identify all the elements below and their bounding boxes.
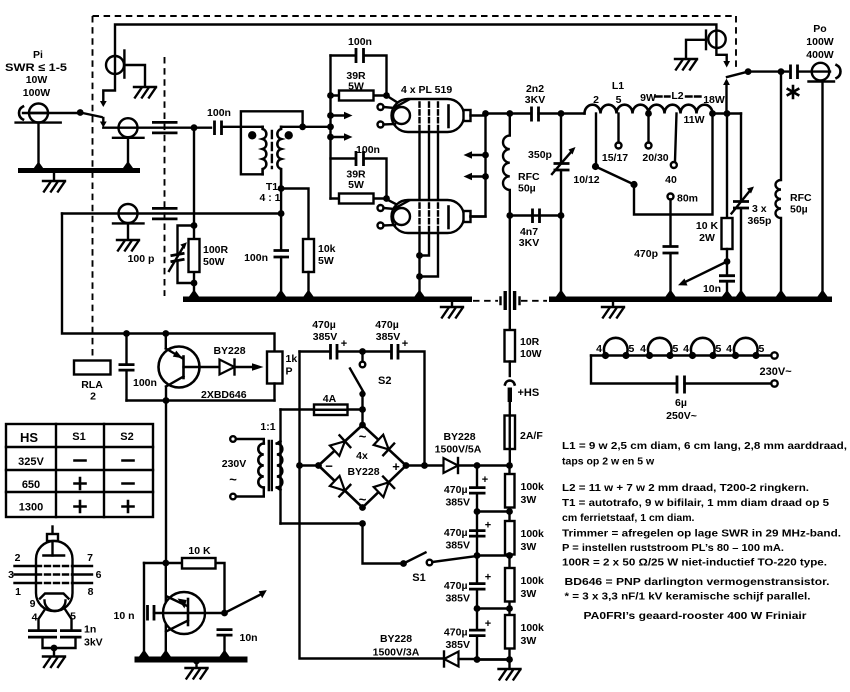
svg-text:5W: 5W [348, 179, 364, 191]
heater chain diagram [591, 354, 771, 356]
svg-text:10/12: 10/12 [573, 174, 599, 186]
transistor bias regulator [163, 592, 205, 634]
relay contact arm K1a input [80, 113, 101, 118]
ground bar right main [549, 297, 832, 303]
relay coil RLA 2 [74, 361, 111, 375]
tube socket pinout diagram [51, 527, 53, 535]
svg-text:470p: 470p [634, 248, 658, 260]
svg-text:BY228: BY228 [347, 466, 379, 478]
svg-text:100R = 2 x 50 Ω/25 W niet-indu: 100R = 2 x 50 Ω/25 W niet-inductief TO-2… [562, 557, 827, 569]
diode bridge bottom-left [329, 475, 350, 496]
svg-text:230V: 230V [222, 458, 247, 470]
svg-text:650: 650 [22, 479, 40, 491]
T1 core [271, 131, 273, 168]
svg-text:L2 = 11 w + 7 w 2 mm draad, T2: L2 = 11 w + 7 w 2 mm draad, T200-2 ringk… [562, 482, 809, 494]
wire output line [748, 70, 788, 72]
svg-text:Trimmer = afregelen op lage SW: Trimmer = afregelen op lage SWR in 29 MH… [562, 528, 841, 540]
svg-text:80m: 80m [677, 193, 698, 205]
wire anode line [486, 112, 531, 114]
connector J1 input coax [19, 107, 23, 120]
heater loop 4 [732, 352, 739, 359]
capacitor 1n 3kV heater pair [39, 610, 72, 630]
svg-text:4 : 1: 4 : 1 [259, 192, 280, 204]
trimmer capacitor 100p [178, 226, 195, 284]
svg-text:10 K: 10 K [188, 545, 211, 557]
svg-text:100n: 100n [356, 144, 380, 156]
svg-text:3W: 3W [521, 635, 537, 647]
switch S2 [361, 352, 363, 362]
wire RX bypass bus [115, 25, 727, 62]
svg-text:385V: 385V [313, 331, 338, 343]
svg-text:470µ: 470µ [444, 580, 468, 592]
wire T1 output [281, 126, 330, 128]
svg-text:11W: 11W [683, 114, 704, 126]
svg-text:BD646 = PNP darlington vermoge: BD646 = PNP darlington vermogenstransist… [565, 576, 830, 588]
svg-text:5W: 5W [318, 255, 334, 267]
svg-text:1500V/5A: 1500V/5A [435, 444, 482, 456]
arrow to other tubes lower [331, 136, 346, 138]
svg-text:1n: 1n [84, 624, 96, 636]
ground [43, 657, 65, 668]
diode bridge top-right [373, 434, 394, 455]
svg-text:RFC: RFC [790, 192, 812, 204]
svg-text:+: + [482, 474, 488, 486]
arrow to other tube anodes upper [482, 152, 489, 159]
svg-text:BY228: BY228 [443, 431, 475, 443]
svg-text:5: 5 [673, 343, 679, 355]
svg-text:100n: 100n [348, 36, 372, 48]
svg-text:2: 2 [15, 552, 21, 564]
capacitor 470u 385V filter 4 [469, 630, 486, 636]
svg-text:100R: 100R [203, 244, 229, 256]
node grid column [329, 56, 331, 199]
svg-text:4: 4 [596, 343, 602, 355]
svg-text:3: 3 [8, 569, 14, 581]
T1 right winding [277, 127, 281, 188]
tap 20/30 [647, 114, 649, 143]
wire branch to 10k [281, 189, 308, 240]
svg-text:15/17: 15/17 [602, 152, 628, 164]
variable capacitor 3x365p load [740, 114, 742, 297]
svg-text:100W: 100W [23, 87, 51, 99]
svg-text:2XBD646: 2XBD646 [201, 389, 247, 401]
svg-text:3KV: 3KV [525, 94, 545, 106]
arrow RF sense to metering [683, 262, 727, 284]
svg-text:6: 6 [96, 569, 102, 581]
connector K4 output relay circle [708, 31, 725, 48]
svg-text:+HS: +HS [518, 387, 540, 399]
wire bias bottom rail [127, 399, 275, 401]
wire main drop to PSU [165, 401, 167, 564]
switch S1 [400, 560, 407, 567]
svg-text:4 x PL 519: 4 x PL 519 [401, 84, 452, 96]
svg-text:5: 5 [759, 343, 765, 355]
svg-text:−: − [325, 459, 333, 474]
tap 15/17 [617, 114, 619, 143]
ground bar left main [183, 297, 472, 303]
svg-text:100k: 100k [521, 622, 545, 634]
svg-text:L2: L2 [671, 90, 683, 102]
svg-text:385V: 385V [445, 593, 470, 605]
connector K3 coax feedthrough [119, 204, 138, 223]
tap 80m with capacitor 470p [668, 194, 674, 200]
wire node column down [193, 128, 195, 297]
svg-text:S1: S1 [72, 431, 85, 443]
svg-text:10n: 10n [703, 283, 721, 295]
svg-text:100n: 100n [244, 252, 268, 264]
dashed inner shield wall [164, 57, 166, 296]
relay upper contact from RX bus [103, 56, 115, 102]
wire output relay contact column [725, 82, 727, 114]
heater loop 1 [602, 352, 609, 359]
svg-text:+: + [402, 338, 408, 350]
svg-text:3W: 3W [521, 588, 537, 600]
connector J2 output coax [812, 63, 830, 81]
svg-text:SWR ≤ 1-5: SWR ≤ 1-5 [5, 62, 67, 74]
svg-text:100k: 100k [521, 575, 545, 587]
svg-text:2W: 2W [699, 232, 715, 244]
wire heater return with capacitor 6u 250V [591, 356, 676, 384]
ground at bleeder bottom [508, 660, 510, 669]
svg-text:325V: 325V [18, 456, 44, 468]
ground bar PSU [135, 657, 248, 663]
svg-text:350p: 350p [528, 149, 552, 161]
choke RFC 50u anode feed [503, 114, 510, 216]
wire anode column [471, 114, 486, 217]
capacitor 470u 385V filter 2 [469, 531, 486, 537]
svg-text:10R: 10R [520, 336, 540, 348]
arrow RF sense from divider [221, 610, 228, 617]
svg-text:~: ~ [359, 429, 367, 444]
svg-text:385V: 385V [445, 497, 470, 509]
svg-text:4A: 4A [323, 393, 337, 405]
svg-text:100k: 100k [521, 528, 545, 540]
svg-text:+: + [341, 338, 347, 350]
svg-text:cm ferrietstaaf, 1 cm diam.: cm ferrietstaaf, 1 cm diam. [562, 512, 695, 524]
svg-text:470µ: 470µ [312, 319, 336, 331]
svg-text:4x: 4x [356, 450, 368, 462]
transformer T1 4:1 [241, 111, 303, 174]
ground [53, 173, 55, 180]
heater loop 3 [689, 352, 696, 359]
connector +HS plug [509, 362, 511, 377]
svg-text:L1: L1 [612, 80, 624, 92]
svg-text:385V: 385V [445, 639, 470, 651]
capacitor output blocking [791, 65, 798, 80]
arrow to other tube anodes lower [482, 173, 489, 180]
svg-text:4: 4 [32, 612, 38, 624]
ground [675, 59, 697, 70]
svg-text:10W: 10W [26, 74, 48, 86]
capacitor 470u 385V filter 1 [476, 466, 478, 556]
tap 40 [675, 114, 677, 162]
wire cathode/heater returns to ground [420, 233, 439, 297]
svg-text:50W: 50W [203, 256, 225, 268]
svg-text:2: 2 [90, 391, 96, 403]
capacitor 10n emitter right [217, 630, 233, 636]
svg-text:HS: HS [20, 430, 38, 445]
svg-text:S2: S2 [120, 431, 133, 443]
svg-text:~: ~ [359, 492, 367, 507]
svg-text:470µ: 470µ [375, 319, 399, 331]
svg-text:100 p: 100 p [128, 253, 155, 265]
svg-text:100n: 100n [207, 107, 231, 119]
svg-text:1500V/3A: 1500V/3A [373, 647, 420, 659]
svg-text:+: + [392, 459, 400, 474]
tube V2 PL519 [388, 200, 401, 207]
svg-text:4: 4 [683, 343, 689, 355]
svg-text:1300: 1300 [19, 502, 43, 514]
svg-text:P = instellen ruststroom PL’s: P = instellen ruststroom PL’s 80 – 100 m… [562, 542, 784, 554]
wire input line through feedthrough to node [119, 126, 212, 128]
svg-text:365p: 365p [748, 215, 772, 227]
dashed enclosure right wall [735, 16, 737, 70]
rectifier bridge 4x BY228 [319, 425, 407, 508]
svg-text:4: 4 [726, 343, 732, 355]
svg-text:RFC: RFC [518, 171, 540, 183]
tap 10/12 [595, 114, 597, 164]
ground [117, 240, 139, 251]
svg-text:250V~: 250V~ [666, 410, 697, 422]
diode bridge bottom-right [373, 477, 394, 498]
svg-text:40: 40 [665, 174, 677, 186]
resistor 100k 3W bleeder 3 [505, 568, 515, 602]
svg-text:100W: 100W [806, 36, 834, 48]
svg-text:BY228: BY228 [213, 345, 245, 357]
svg-text:470µ: 470µ [444, 484, 468, 496]
capacitor 470u 385V filter 3 [476, 556, 478, 660]
svg-text:50µ: 50µ [790, 204, 808, 216]
resistor 100k 3W bleeder 4 [505, 615, 515, 649]
svg-text:400W: 400W [806, 49, 834, 61]
svg-text:BY228: BY228 [380, 633, 412, 645]
diode bridge top-left [329, 435, 350, 456]
svg-text:S2: S2 [378, 375, 391, 387]
svg-text:3 x: 3 x [752, 203, 767, 215]
svg-text:* = 3 x 3,3 nF/1 kV keramische: * = 3 x 3,3 nF/1 kV keramische schijf pa… [565, 591, 811, 603]
svg-text:RLA: RLA [81, 379, 103, 391]
heater loop 2 [646, 352, 653, 359]
feedthrough capacitor FT1 on shield wall [152, 122, 178, 132]
svg-text:2A/F: 2A/F [520, 430, 543, 442]
resistor 10k 5W [303, 239, 314, 272]
svg-text:P: P [286, 366, 293, 378]
svg-text:3W: 3W [521, 494, 537, 506]
wire S1 branch [281, 524, 404, 564]
svg-text:4: 4 [640, 343, 646, 355]
svg-text:Pi: Pi [33, 49, 43, 61]
svg-text:6µ: 6µ [675, 397, 687, 409]
svg-text:~: ~ [229, 472, 237, 487]
transistor 2xBD646 darlington [159, 347, 200, 388]
svg-text:L1 = 9 w 2,5 cm diam, 6 cm lan: L1 = 9 w 2,5 cm diam, 6 cm lang, 2,8 mm … [562, 440, 847, 452]
ground bar top-left [18, 168, 140, 173]
svg-text:100n: 100n [133, 377, 157, 389]
wire negative rail [300, 352, 444, 659]
wire bias line [62, 212, 281, 214]
resistor 100k 3W bleeder 1 [508, 466, 510, 660]
node [191, 124, 198, 131]
ground below left bar [451, 302, 453, 306]
svg-text:100k: 100k [521, 481, 545, 493]
svg-text:+: + [485, 572, 491, 584]
svg-text:+: + [485, 520, 491, 532]
svg-text:3W: 3W [521, 541, 537, 553]
svg-text:10W: 10W [520, 348, 542, 360]
wire bias feed down left [62, 214, 275, 352]
svg-text:9: 9 [30, 598, 36, 610]
svg-text:1:1: 1:1 [260, 421, 275, 433]
cathode [40, 594, 69, 599]
T1 polarity dots [248, 131, 256, 139]
potentiometer 1k P [267, 352, 283, 384]
svg-text:5: 5 [616, 94, 622, 106]
svg-text:470µ: 470µ [444, 527, 468, 539]
relay connector K1 circle [106, 56, 124, 74]
svg-text:10 n: 10 n [113, 610, 134, 622]
feedthrough capacitor FT2 on shield wall [152, 208, 178, 219]
svg-text:taps op 2 w en 5 w: taps op 2 w en 5 w [562, 456, 655, 468]
wire tube internal columns [420, 132, 439, 200]
capacitor 4n7 3KV HV bypass [510, 214, 561, 216]
svg-text:9W: 9W [640, 92, 656, 104]
svg-text:10n: 10n [240, 632, 258, 644]
svg-text:8: 8 [88, 586, 94, 598]
ground below right bar [612, 302, 614, 306]
svg-text:1k: 1k [286, 353, 298, 365]
fuse 2A/F [509, 402, 511, 466]
svg-text:Po: Po [813, 23, 826, 35]
svg-text:385V: 385V [445, 540, 470, 552]
svg-text:7: 7 [87, 552, 93, 564]
svg-text:1: 1 [15, 586, 21, 598]
svg-text:5: 5 [716, 343, 722, 355]
svg-text:PA0FRI’s geaard-rooster 400 W: PA0FRI’s geaard-rooster 400 W Friniair [584, 610, 807, 622]
dashed enclosure top edge [93, 15, 737, 17]
dashed enclosure left wall (relay actuation line down to RLA) [92, 16, 94, 359]
svg-text:20/30: 20/30 [642, 152, 668, 164]
svg-text:3kV: 3kV [84, 637, 103, 649]
asterisk note mark [788, 86, 798, 98]
connector K2 coax feedthrough on TX path [119, 118, 138, 137]
resistor 100R 50W [189, 239, 200, 272]
node input [77, 109, 84, 116]
svg-text:S1: S1 [412, 572, 425, 584]
svg-text:385V: 385V [376, 331, 401, 343]
capacitor 100n bias [125, 334, 127, 401]
choke RFC 50u output safety [776, 72, 782, 297]
svg-text:3KV: 3KV [519, 237, 539, 249]
svg-text:230V~: 230V~ [760, 366, 793, 378]
resistor 10R 10W [509, 330, 511, 336]
table HS S1 S2 [6, 424, 153, 517]
T1 left winding [263, 127, 267, 175]
arrow to other tubes upper [331, 114, 346, 116]
wire to ground bar [560, 216, 562, 297]
switch S bandswitch arm [596, 167, 635, 185]
svg-text:470µ: 470µ [444, 627, 468, 639]
resistor 100k 3W bleeder 2 [505, 521, 515, 555]
wire T1 bottom column [280, 188, 282, 250]
wire equalize links [477, 512, 510, 660]
svg-text:50µ: 50µ [518, 183, 536, 195]
ground [134, 87, 156, 98]
tube V1 PL519 [388, 97, 401, 105]
svg-text:5: 5 [629, 343, 635, 355]
feedthrough capacitor HS supply [509, 216, 511, 331]
dashed bottom edge segments at HS feedthrough [473, 300, 547, 302]
relay arm K1b output [745, 68, 752, 75]
svg-text:T1 = autotrafo, 9 w bifilair,: T1 = autotrafo, 9 w bifilair, 1 mm diam … [562, 497, 829, 509]
svg-text:10k: 10k [318, 243, 336, 255]
svg-text:10 K: 10 K [696, 220, 719, 232]
svg-text:+: + [485, 618, 491, 630]
